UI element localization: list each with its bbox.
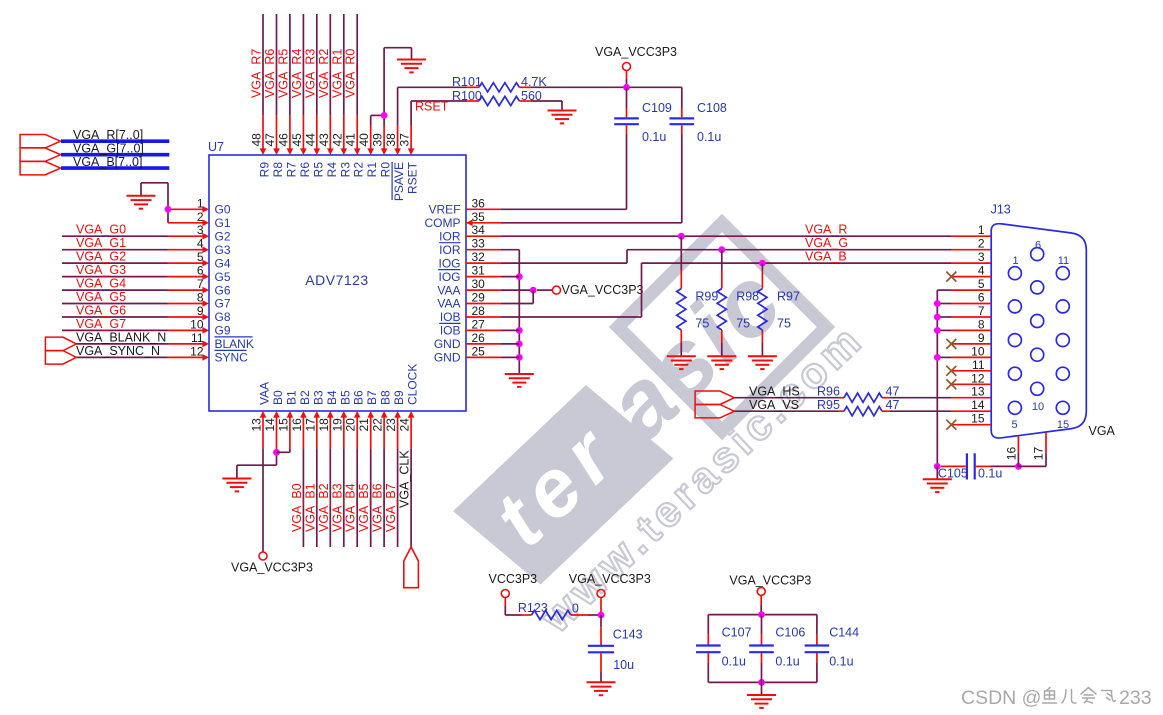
- svg-text:B9: B9: [392, 390, 406, 405]
- svg-text:VGA_R2: VGA_R2: [317, 49, 331, 98]
- svg-text:1: 1: [1013, 255, 1019, 267]
- svg-text:233: 233: [1119, 687, 1152, 709]
- svg-text:R4: R4: [325, 162, 339, 178]
- svg-text:16: 16: [1004, 447, 1018, 461]
- svg-text:G2: G2: [215, 229, 231, 243]
- svg-text:VGA_R5: VGA_R5: [276, 49, 290, 98]
- svg-text:ADV7123: ADV7123: [305, 272, 368, 288]
- svg-text:5: 5: [978, 277, 985, 291]
- svg-text:R99: R99: [695, 290, 718, 304]
- svg-text:IOG: IOG: [438, 270, 460, 284]
- svg-text:B4: B4: [325, 390, 339, 405]
- svg-text:C143: C143: [613, 628, 643, 642]
- svg-text:38: 38: [384, 133, 398, 147]
- svg-text:VGA_R7: VGA_R7: [250, 49, 264, 98]
- svg-text:G8: G8: [215, 310, 231, 324]
- svg-text:R100: R100: [452, 89, 482, 103]
- svg-text:VGA_R4: VGA_R4: [290, 49, 304, 98]
- svg-text:VAA: VAA: [437, 283, 460, 297]
- svg-text:VREF: VREF: [428, 203, 460, 217]
- svg-text:47: 47: [263, 133, 277, 147]
- svg-text:75: 75: [777, 317, 791, 331]
- svg-text:C109: C109: [642, 101, 672, 115]
- svg-text:VGA_VCC3P3: VGA_VCC3P3: [569, 572, 651, 586]
- svg-text:GND: GND: [434, 351, 461, 365]
- svg-text:G0: G0: [215, 203, 231, 217]
- svg-text:R6: R6: [298, 162, 312, 178]
- svg-text:G5: G5: [215, 270, 231, 284]
- svg-text:24: 24: [398, 418, 412, 432]
- svg-text:R123: R123: [518, 601, 548, 615]
- svg-text:VGA_G: VGA_G: [805, 236, 848, 250]
- svg-text:VGA_G5: VGA_G5: [76, 290, 126, 304]
- svg-text:RSET: RSET: [415, 100, 449, 114]
- svg-text:VGA_G4: VGA_G4: [76, 277, 126, 291]
- svg-text:7: 7: [978, 304, 985, 318]
- svg-text:VGA_SYNC_N: VGA_SYNC_N: [76, 344, 160, 358]
- svg-text:IOB: IOB: [440, 310, 461, 324]
- svg-text:0.1u: 0.1u: [642, 130, 666, 144]
- svg-text:C144: C144: [829, 626, 859, 640]
- svg-text:PSAVE: PSAVE: [392, 162, 406, 201]
- svg-text:44: 44: [303, 133, 317, 147]
- svg-text:18: 18: [317, 418, 331, 432]
- svg-text:R3: R3: [338, 162, 352, 178]
- svg-text:VGA_CLK: VGA_CLK: [398, 450, 412, 508]
- svg-text:33: 33: [472, 237, 486, 251]
- svg-text:17: 17: [303, 418, 317, 432]
- svg-text:SYNC: SYNC: [215, 351, 249, 365]
- svg-text:VGA_B3: VGA_B3: [330, 483, 344, 532]
- svg-text:G1: G1: [215, 216, 231, 230]
- svg-text:23: 23: [384, 418, 398, 432]
- svg-text:R8: R8: [271, 162, 285, 178]
- svg-text:25: 25: [472, 344, 486, 358]
- svg-text:VGA_B0: VGA_B0: [290, 483, 304, 532]
- svg-text:VGA_R0: VGA_R0: [344, 49, 358, 98]
- svg-text:45: 45: [290, 133, 304, 147]
- svg-text:11: 11: [1058, 255, 1069, 267]
- svg-text:36: 36: [472, 196, 486, 210]
- svg-text:U7: U7: [208, 140, 224, 154]
- svg-text:40: 40: [357, 133, 371, 147]
- svg-text:0.1u: 0.1u: [722, 655, 746, 669]
- svg-text:R9: R9: [258, 162, 272, 178]
- svg-text:VGA_R1: VGA_R1: [330, 49, 344, 98]
- svg-text:VGA_VS: VGA_VS: [749, 398, 799, 412]
- svg-text:G9: G9: [215, 324, 231, 338]
- svg-text:27: 27: [472, 317, 486, 331]
- svg-text:VGA_VCC3P3: VGA_VCC3P3: [595, 45, 677, 59]
- svg-text:B7: B7: [365, 390, 379, 405]
- svg-text:VGA_G[7..0]: VGA_G[7..0]: [73, 142, 144, 156]
- svg-text:R1: R1: [365, 162, 379, 178]
- svg-text:15: 15: [971, 412, 985, 426]
- svg-text:RSET: RSET: [406, 161, 420, 194]
- svg-text:37: 37: [398, 133, 412, 147]
- svg-text:VGA_G6: VGA_G6: [76, 303, 126, 317]
- svg-text:C107: C107: [722, 626, 752, 640]
- svg-text:R96: R96: [817, 385, 840, 399]
- svg-text:42: 42: [330, 133, 344, 147]
- svg-text:VGA_B: VGA_B: [805, 249, 847, 263]
- svg-text:C106: C106: [775, 626, 805, 640]
- svg-text:VCC3P3: VCC3P3: [489, 572, 538, 586]
- svg-text:15: 15: [1057, 419, 1069, 431]
- svg-text:BLANK: BLANK: [215, 337, 254, 351]
- svg-text:11: 11: [191, 331, 204, 345]
- svg-text:6: 6: [978, 291, 985, 305]
- svg-text:R97: R97: [777, 290, 800, 304]
- svg-text:16: 16: [290, 418, 304, 432]
- svg-text:J13: J13: [991, 203, 1011, 217]
- svg-text:0: 0: [572, 602, 579, 616]
- svg-text:26: 26: [472, 331, 486, 345]
- svg-text:VGA_B[7..0]: VGA_B[7..0]: [73, 155, 142, 169]
- svg-text:VGA_VCC3P3: VGA_VCC3P3: [231, 561, 313, 575]
- svg-text:VGA_B4: VGA_B4: [344, 483, 358, 532]
- svg-text:C108: C108: [697, 101, 727, 115]
- svg-text:VGA_R6: VGA_R6: [263, 49, 277, 98]
- svg-text:R7: R7: [284, 162, 298, 178]
- svg-text:32: 32: [472, 250, 486, 264]
- svg-text:0.1u: 0.1u: [978, 467, 1002, 481]
- svg-text:VGA_G3: VGA_G3: [76, 263, 126, 277]
- svg-text:B8: B8: [379, 390, 393, 405]
- svg-text:4.7K: 4.7K: [521, 75, 547, 89]
- svg-text:R98: R98: [736, 290, 759, 304]
- svg-text:10u: 10u: [613, 658, 634, 672]
- svg-text:48: 48: [250, 133, 264, 147]
- svg-text:0.1u: 0.1u: [697, 130, 721, 144]
- svg-text:R95: R95: [817, 398, 840, 412]
- svg-text:VGA_B5: VGA_B5: [357, 483, 371, 532]
- svg-text:VAA: VAA: [437, 297, 460, 311]
- svg-text:34: 34: [472, 223, 486, 237]
- svg-text:VGA: VGA: [1089, 424, 1116, 438]
- svg-text:75: 75: [695, 317, 709, 331]
- svg-text:IOR: IOR: [439, 243, 461, 257]
- svg-text:B1: B1: [284, 390, 298, 405]
- svg-text:B0: B0: [271, 390, 285, 405]
- svg-text:VGA_G2: VGA_G2: [76, 250, 126, 264]
- svg-text:10: 10: [190, 317, 204, 331]
- svg-text:5: 5: [1011, 419, 1017, 431]
- svg-text:46: 46: [276, 133, 290, 147]
- svg-text:VGA_G0: VGA_G0: [76, 223, 126, 237]
- svg-text:13: 13: [250, 418, 264, 432]
- svg-text:VGA_B6: VGA_B6: [371, 483, 385, 532]
- svg-text:10: 10: [1032, 401, 1044, 413]
- svg-text:47: 47: [886, 398, 900, 412]
- svg-text:VGA_R: VGA_R: [805, 222, 847, 236]
- svg-text:B5: B5: [338, 390, 352, 405]
- svg-text:B2: B2: [298, 390, 312, 405]
- svg-text:3: 3: [978, 250, 985, 264]
- svg-text:VGA_R[7..0]: VGA_R[7..0]: [73, 128, 143, 142]
- svg-text:22: 22: [371, 418, 385, 432]
- svg-text:17: 17: [1031, 447, 1045, 461]
- svg-text:43: 43: [317, 133, 331, 147]
- svg-text:28: 28: [472, 304, 486, 318]
- svg-text:11: 11: [972, 358, 985, 372]
- svg-text:IOR: IOR: [439, 229, 461, 243]
- svg-text:19: 19: [330, 418, 344, 432]
- svg-text:B3: B3: [311, 390, 325, 405]
- svg-text:1: 1: [978, 223, 985, 237]
- svg-text:14: 14: [971, 398, 985, 412]
- svg-text:14: 14: [263, 418, 277, 432]
- svg-text:VAA: VAA: [258, 382, 272, 405]
- svg-text:CSDN @: CSDN @: [961, 687, 1041, 709]
- svg-text:G6: G6: [215, 283, 231, 297]
- svg-text:B6: B6: [352, 390, 366, 405]
- svg-text:IOB: IOB: [440, 324, 461, 338]
- svg-text:VGA_BLANK_N: VGA_BLANK_N: [76, 330, 166, 344]
- svg-text:G4: G4: [215, 256, 231, 270]
- svg-text:560: 560: [521, 89, 542, 103]
- svg-text:COMP: COMP: [425, 216, 461, 230]
- svg-text:0.1u: 0.1u: [775, 655, 799, 669]
- svg-text:GND: GND: [434, 337, 461, 351]
- svg-text:G7: G7: [215, 297, 231, 311]
- svg-text:75: 75: [736, 317, 750, 331]
- svg-text:R101: R101: [452, 75, 482, 89]
- svg-text:9: 9: [978, 331, 985, 345]
- svg-text:VGA_G7: VGA_G7: [76, 317, 126, 331]
- svg-text:30: 30: [472, 277, 486, 291]
- svg-text:CLOCK: CLOCK: [406, 364, 420, 405]
- svg-text:R0: R0: [379, 162, 393, 178]
- svg-text:10: 10: [971, 344, 985, 358]
- svg-text:VGA_B7: VGA_B7: [384, 483, 398, 532]
- svg-text:C105: C105: [938, 467, 968, 481]
- svg-text:8: 8: [978, 317, 985, 331]
- svg-text:15: 15: [276, 418, 290, 432]
- svg-text:47: 47: [886, 385, 900, 399]
- svg-text:2: 2: [978, 237, 985, 251]
- svg-text:IOG: IOG: [438, 256, 460, 270]
- svg-text:VGA_B2: VGA_B2: [317, 483, 331, 532]
- svg-text:R5: R5: [311, 162, 325, 178]
- svg-text:12: 12: [971, 371, 985, 385]
- svg-text:0.1u: 0.1u: [829, 655, 853, 669]
- svg-text:VGA_R3: VGA_R3: [303, 49, 317, 98]
- svg-text:13: 13: [971, 385, 985, 399]
- svg-text:41: 41: [344, 133, 358, 147]
- svg-text:29: 29: [472, 291, 486, 305]
- svg-text:VGA_VCC3P3: VGA_VCC3P3: [562, 283, 644, 297]
- svg-text:20: 20: [344, 418, 358, 432]
- svg-text:G3: G3: [215, 243, 231, 257]
- svg-text:VGA_G1: VGA_G1: [76, 236, 126, 250]
- svg-text:VGA_B1: VGA_B1: [303, 483, 317, 532]
- svg-text:VGA_VCC3P3: VGA_VCC3P3: [729, 574, 811, 588]
- svg-text:35: 35: [472, 210, 486, 224]
- svg-text:VGA_HS: VGA_HS: [749, 385, 800, 399]
- svg-text:6: 6: [1035, 239, 1041, 251]
- svg-text:12: 12: [190, 344, 204, 358]
- svg-text:39: 39: [371, 133, 385, 147]
- svg-text:31: 31: [472, 264, 486, 278]
- svg-text:R2: R2: [352, 162, 366, 178]
- svg-text:21: 21: [357, 418, 371, 432]
- svg-text:4: 4: [978, 264, 985, 278]
